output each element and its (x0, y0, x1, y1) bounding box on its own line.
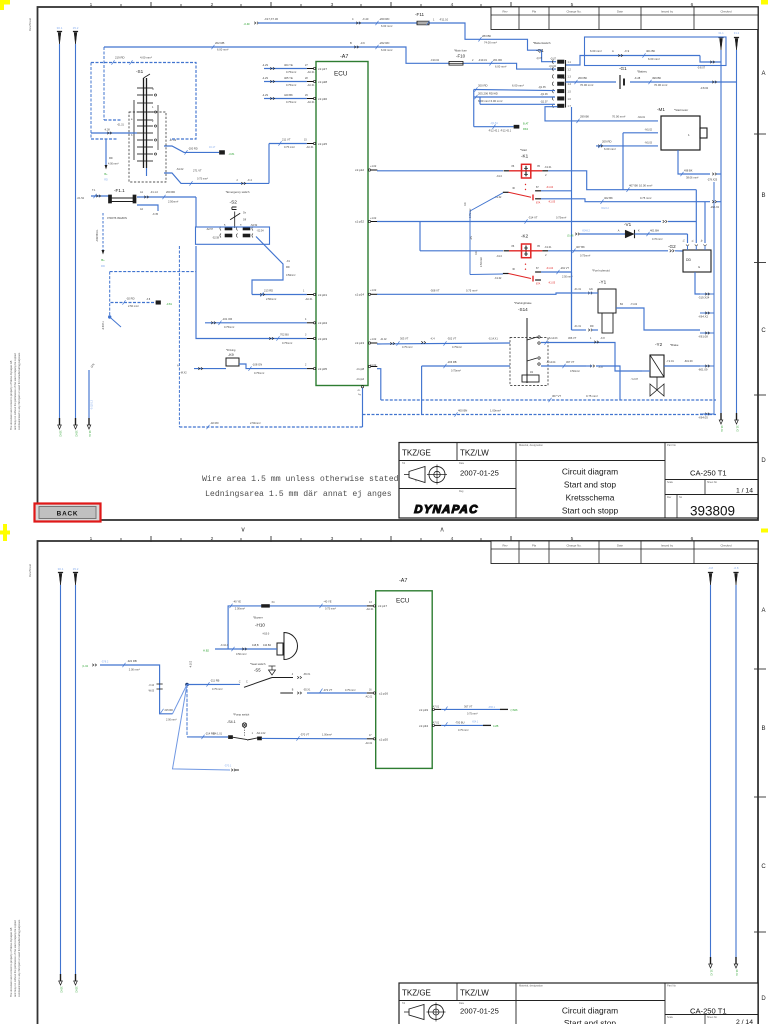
svg-text:-378.2: -378.2 (101, 659, 109, 663)
svg-text:-X.4: -X.4 (247, 178, 252, 182)
svg-text:TKZ/LW: TKZ/LW (460, 449, 489, 458)
svg-text:6.00 mm²: 6.00 mm² (381, 24, 392, 28)
svg-text:30 G: 30 G (60, 986, 64, 993)
svg-text:31.1: 31.1 (718, 31, 724, 35)
svg-text:-4.28: -4.28 (560, 76, 566, 80)
svg-text:-278.X25: -278.X25 (707, 179, 718, 182)
svg-text:-319.X24: -319.X24 (698, 295, 710, 299)
svg-text:-H10.0: -H10.0 (262, 633, 270, 636)
svg-text:-370.1: -370.1 (224, 763, 232, 767)
svg-text:-S2.54: -S2.54 (257, 230, 265, 233)
svg-text:-X64.X2: -X64.X2 (698, 314, 709, 318)
svg-text:2.00 mm²: 2.00 mm² (166, 719, 177, 722)
svg-text:404 YE: 404 YE (284, 63, 293, 67)
svg-text:-F10.31: -F10.31 (478, 58, 487, 62)
svg-text:-V1: -V1 (624, 222, 632, 227)
svg-text:TKZ/GE: TKZ/GE (402, 989, 431, 998)
svg-text:-S5: -S5 (254, 668, 261, 673)
svg-text:Date: Date (617, 543, 623, 547)
svg-text:B+: B+ (101, 258, 105, 262)
svg-text:-F11.10: -F11.10 (439, 18, 449, 22)
svg-text:2007-01-25: 2007-01-25 (460, 469, 499, 478)
svg-text:c1:p20: c1:p20 (379, 738, 388, 742)
svg-text:0.75 mm²: 0.75 mm² (402, 346, 413, 349)
svg-text:418,B: 418,B (252, 644, 259, 647)
svg-text:c1:p13: c1:p13 (355, 341, 364, 345)
svg-text:-A7: -A7 (340, 54, 348, 60)
svg-text:-X64.05: -X64.05 (698, 415, 708, 419)
svg-text:401 BK: 401 BK (646, 49, 655, 53)
svg-text:407 BK: 407 BK (576, 245, 585, 249)
svg-text:307 VT: 307 VT (552, 394, 561, 398)
svg-text:*Fuel solenoid: *Fuel solenoid (592, 269, 610, 273)
svg-text:1N: 1N (530, 371, 533, 374)
svg-text:0.75mm²: 0.75mm² (286, 100, 296, 104)
svg-text:The document and content is pr: The document and content is property of … (9, 360, 13, 430)
svg-text:RD: RD (104, 179, 108, 182)
svg-text:RK2: RK2 (523, 127, 529, 131)
svg-text:*Batteriswitch: *Batteriswitch (533, 41, 551, 45)
svg-text:*Driving: *Driving (226, 348, 236, 352)
svg-text:-291 VT: -291 VT (560, 267, 569, 270)
svg-text:B: B (350, 41, 352, 45)
svg-text:communicated to any third part: communicated to any third part or used f… (17, 352, 21, 430)
svg-text:6.00 mm²: 6.00 mm² (381, 48, 392, 52)
svg-text:283 BK: 283 BK (482, 34, 491, 38)
svg-text:GN: GN (589, 288, 593, 291)
svg-text:87A: 87A (536, 283, 541, 286)
svg-text:Part No: Part No (667, 984, 676, 988)
svg-text:400 BN: 400 BN (458, 409, 467, 413)
svg-text:c1:p04: c1:p04 (318, 321, 327, 325)
svg-text:30 G: 30 G (75, 986, 79, 993)
svg-text:*Brake: *Brake (670, 343, 679, 347)
svg-text:-X.9: -X.9 (624, 49, 630, 53)
svg-text:4.00 mm²: 4.00 mm² (108, 163, 119, 166)
svg-text:-AC.01: -AC.01 (305, 298, 313, 301)
svg-text:Checked: Checked (720, 9, 731, 13)
svg-text:420 BK: 420 BK (284, 93, 293, 97)
svg-text:2007-01-25: 2007-01-25 (460, 1007, 499, 1016)
svg-text:2.50mm²: 2.50mm² (168, 200, 178, 204)
svg-text:1: 1 (90, 536, 93, 542)
svg-text:Scale: Scale (667, 481, 674, 484)
svg-text:-0.81: -0.81 (229, 152, 235, 156)
svg-text:C: C (246, 681, 248, 684)
svg-text:1: 1 (90, 2, 93, 8)
svg-text:-K2: -K2 (521, 233, 529, 238)
svg-text:-Q1.06: -Q1.06 (540, 93, 548, 96)
svg-text:407 BK 10.00 mm²: 407 BK 10.00 mm² (629, 184, 652, 188)
svg-text:213 RD: 213 RD (264, 289, 273, 293)
svg-text:-H10: -H10 (255, 623, 265, 628)
svg-text:-K1: -K1 (521, 153, 529, 158)
svg-text:c1:p8: c1:p8 (357, 367, 365, 371)
svg-text:-0.8.07: -0.8.07 (697, 66, 706, 70)
svg-text:-K9: -K9 (228, 353, 234, 357)
svg-text:215 RD: 215 RD (165, 709, 174, 712)
svg-text:-161 OR: -161 OR (222, 317, 232, 321)
svg-text:-AC.01: -AC.01 (307, 84, 315, 87)
svg-text:-S.14.X1: -S.14.X1 (488, 338, 498, 341)
svg-text:-A7.01: -A7.01 (432, 722, 440, 725)
svg-text:306 VT: 306 VT (568, 336, 577, 340)
svg-text:CA-250 T1: CA-250 T1 (690, 1007, 727, 1016)
svg-text:0.75 mm²: 0.75 mm² (284, 145, 295, 149)
svg-text:Pla: Pla (532, 543, 536, 547)
svg-text:70.00 mm²: 70.00 mm² (654, 83, 667, 87)
svg-text:0.75 mm²: 0.75 mm² (458, 729, 469, 732)
svg-text:2.50 mm²: 2.50 mm² (480, 257, 483, 267)
svg-text:ECU: ECU (334, 71, 348, 78)
svg-text:-0.507.1: -0.507.1 (102, 321, 105, 330)
svg-text:RD: RD (590, 325, 594, 328)
svg-text:0.75mm²: 0.75mm² (452, 346, 462, 349)
svg-text:+1.02: +1.02 (370, 338, 377, 341)
svg-text:-AC.01: -AC.01 (365, 742, 373, 745)
svg-text:0.75mm²: 0.75mm² (580, 254, 590, 258)
svg-text:307 VT: 307 VT (566, 360, 575, 364)
svg-text:0.75 mm²: 0.75 mm² (640, 196, 651, 200)
svg-text:0.75mm²: 0.75mm² (282, 341, 292, 345)
svg-text:-G1: -G1 (619, 66, 627, 71)
svg-text:*Start: *Start (520, 148, 527, 152)
svg-text:-Y.2.07: -Y.2.07 (631, 378, 639, 381)
svg-text:299 BK: 299 BK (580, 115, 589, 119)
svg-text:-S14: -S14 (518, 307, 528, 312)
svg-text:∧: ∧ (439, 527, 444, 534)
svg-text:-K1.01: -K1.01 (544, 246, 552, 249)
svg-text:-0.4F: -0.4F (243, 22, 250, 26)
svg-text:DYNAPAC: DYNAPAC (414, 504, 479, 516)
svg-text:Tol: Tol (402, 462, 406, 465)
svg-text:c1:p03: c1:p03 (318, 337, 327, 341)
svg-text:-Q1.51: -Q1.51 (490, 122, 498, 125)
svg-text:RD: RD (475, 251, 478, 255)
svg-text:-700 BU: -700 BU (455, 720, 465, 724)
svg-text:Pla: Pla (532, 9, 536, 13)
svg-text:4.2B: 4.2B (493, 724, 499, 728)
svg-text:-Q.07: -Q.07 (536, 57, 543, 60)
svg-text:+1.02: +1.02 (370, 217, 377, 220)
svg-text:0.75mm²: 0.75mm² (286, 83, 296, 87)
svg-text:Circuit diagram: Circuit diagram (562, 1006, 618, 1016)
svg-text:0.75mm²: 0.75mm² (451, 370, 461, 373)
svg-text:Start and stop: Start and stop (564, 480, 616, 490)
svg-text:200 RD: 200 RD (478, 84, 487, 88)
svg-text:*Buzzer: *Buzzer (253, 615, 263, 619)
svg-text:TKZ/LW: TKZ/LW (460, 989, 489, 998)
svg-text:0.75 mm²: 0.75 mm² (467, 712, 478, 715)
svg-text:-S4.1.01: -S4.1.01 (213, 732, 223, 735)
svg-text:-F10: -F10 (456, 54, 466, 59)
svg-text:-S.14.04: -S.14.04 (546, 361, 556, 364)
svg-text:-Y1.02: -Y1.02 (630, 303, 638, 306)
svg-text:-G2: -G2 (668, 244, 676, 249)
svg-text:-K1.0: -K1.0 (496, 175, 502, 178)
svg-text:498 BK: 498 BK (684, 169, 693, 173)
svg-text:-X.10: -X.10 (149, 685, 155, 687)
svg-text:-S5.X1: -S5.X1 (303, 673, 311, 676)
svg-text:0.76 mm²: 0.76 mm² (652, 238, 663, 241)
svg-text:15.2: 15.2 (73, 567, 79, 571)
svg-text:-X.8: -X.8 (146, 299, 151, 301)
svg-text:3: 3 (331, 2, 334, 8)
svg-text:-Y2: -Y2 (655, 342, 663, 347)
svg-text:31.2: 31.2 (734, 31, 740, 35)
svg-text:c1:p32: c1:p32 (355, 220, 364, 224)
svg-text:c1:p19: c1:p19 (419, 708, 428, 712)
svg-text:-K1.0: -K1.0 (496, 255, 502, 258)
svg-text:-314 VT: -314 VT (528, 216, 538, 220)
svg-text:-40 YE: -40 YE (233, 600, 241, 604)
svg-text:Rev/Sheet: Rev/Sheet (28, 18, 32, 31)
svg-text:-S2.57: -S2.57 (206, 228, 214, 231)
svg-text:-K.38: -K.38 (104, 129, 110, 132)
svg-text:2.00 mm²: 2.00 mm² (129, 667, 140, 671)
svg-text:BACK: BACK (57, 511, 79, 518)
svg-text:70.00 mm²: 70.00 mm² (612, 115, 625, 119)
svg-text:-M1.03: -M1.03 (645, 142, 653, 145)
svg-text:c1:p12: c1:p12 (355, 168, 364, 172)
svg-text:*Pump switch: *Pump switch (233, 713, 250, 717)
svg-text:405 YE: 405 YE (284, 76, 293, 80)
svg-text:0.75 mm²: 0.75 mm² (466, 288, 477, 292)
svg-text:30 G: 30 G (75, 430, 79, 437)
svg-text:702 BU: 702 BU (280, 333, 289, 337)
svg-text:B+: B+ (104, 173, 108, 176)
svg-text:30 G: 30 G (59, 430, 63, 437)
svg-text:209 RD: 209 RD (602, 140, 611, 144)
svg-text:-206 RB: -206 RB (447, 360, 457, 364)
svg-text:Sheet No: Sheet No (707, 1016, 718, 1019)
svg-text:0.50mm²: 0.50mm² (286, 274, 296, 277)
svg-text:-S2.58: -S2.58 (212, 237, 220, 240)
svg-text:0.75mm²: 0.75mm² (556, 216, 566, 220)
svg-text:-Q1: -Q1 (536, 48, 544, 53)
svg-text:B: B (761, 726, 765, 732)
svg-text:3: 3 (331, 536, 334, 542)
svg-text:-S2: -S2 (230, 200, 238, 206)
svg-text:-S1.02: -S1.02 (176, 168, 184, 171)
svg-text:-200 RD: -200 RD (188, 147, 198, 151)
svg-text:*Parkingbrake: *Parkingbrake (514, 301, 532, 305)
svg-text:-41.02: -41.02 (380, 339, 387, 341)
svg-text:-X.8: -X.8 (600, 337, 605, 340)
svg-text:0.75 mm²: 0.75 mm² (345, 689, 356, 692)
svg-text:-A7.01: -A7.01 (432, 706, 440, 709)
svg-text:6.00 mm²: 6.00 mm² (604, 147, 616, 151)
svg-text:-M1: -M1 (657, 107, 665, 112)
svg-text:CA-250 T1: CA-250 T1 (690, 469, 727, 478)
svg-text:X048.2: X048.2 (582, 230, 591, 233)
svg-text:-AC.01: -AC.01 (365, 696, 373, 699)
svg-text:200 RD: 200 RD (166, 190, 175, 194)
svg-text:0.75 mm²: 0.75 mm² (586, 394, 598, 398)
svg-text:Rev/Sheet: Rev/Sheet (28, 564, 32, 577)
svg-text:+1.02: +1.02 (370, 165, 377, 168)
svg-text:6.00 mm²: 6.00 mm² (590, 49, 602, 53)
svg-text:-S.14.03: -S.14.03 (548, 337, 558, 340)
svg-text:c1:p30: c1:p30 (318, 97, 327, 101)
svg-text:RD: RD (109, 157, 113, 160)
svg-text:*Startmotor: *Startmotor (674, 108, 688, 112)
svg-text:1.00mm²: 1.00mm² (490, 409, 501, 413)
svg-text:-X.40: -X.40 (362, 17, 369, 21)
svg-text:-K1.05: -K1.05 (548, 282, 556, 285)
svg-text:-0.8: -0.8 (734, 566, 739, 570)
svg-text:31 G: 31 G (720, 425, 724, 432)
svg-text:30.1: 30.1 (58, 567, 64, 571)
svg-text:Kretsschema: Kretsschema (566, 493, 615, 503)
svg-text:-308 VT: -308 VT (430, 288, 440, 292)
svg-text:X04.1: X04.1 (472, 720, 479, 723)
svg-text:B: B (761, 193, 765, 199)
svg-text:-K1.04: -K1.04 (546, 267, 554, 270)
svg-text:-02 RD: -02 RD (210, 421, 219, 425)
svg-text:-302 VT: -302 VT (447, 337, 457, 341)
svg-text:Reg: Reg (459, 490, 464, 493)
svg-text:-601.09: -601.09 (698, 367, 708, 371)
svg-text:c1:p15: c1:p15 (318, 142, 327, 146)
svg-text:87A: 87A (536, 201, 541, 204)
svg-text:-40 YE: -40 YE (323, 600, 331, 604)
svg-text:2.00mm²: 2.00mm² (235, 607, 245, 611)
svg-text:-26A.X2: -26A.X2 (710, 206, 720, 209)
svg-text:*Emergency switch: *Emergency switch (226, 190, 250, 194)
svg-text:0.75 mm²: 0.75 mm² (325, 607, 336, 611)
svg-text:-X.4: -X.4 (430, 338, 435, 341)
svg-text:2.50mm²: 2.50mm² (266, 297, 276, 301)
svg-text:-F1.52: -F1.52 (77, 197, 85, 200)
svg-text:-Q1.07: -Q1.07 (540, 100, 548, 103)
svg-text:D: D (761, 996, 766, 1002)
svg-text:6.00 mm² 6.00 mm²: 6.00 mm² 6.00 mm² (478, 99, 502, 103)
svg-text:070/076 09A/DIN: 070/076 09A/DIN (107, 216, 127, 220)
svg-text:2: 2 (211, 536, 214, 542)
svg-text:Date: Date (459, 1002, 465, 1005)
svg-text:-0.8.02: -0.8.02 (700, 86, 709, 90)
svg-text:30.1: 30.1 (57, 26, 63, 30)
svg-text:6.00 mm²: 6.00 mm² (512, 84, 524, 88)
svg-text:ECU: ECU (396, 598, 410, 605)
svg-text:-Q1.35: -Q1.35 (538, 86, 546, 89)
svg-text:-F1.1: -F1.1 (114, 188, 125, 193)
svg-text:-S4.1: -S4.1 (227, 720, 236, 724)
svg-text:Issued by: Issued by (661, 9, 674, 13)
svg-text:1 / 14: 1 / 14 (736, 488, 753, 495)
svg-text:-AC.01: -AC.01 (366, 608, 374, 611)
svg-text:C: C (761, 864, 766, 870)
svg-text:DD: DD (686, 258, 691, 262)
svg-text:0.75mm²: 0.75mm² (254, 371, 264, 375)
svg-text:410.B4: 410.B4 (263, 644, 272, 647)
svg-text:-K1.05: -K1.05 (548, 200, 556, 203)
svg-text:-P.12.42.1 -P.12.42.1: -P.12.42.1 -P.12.42.1 (488, 130, 512, 133)
svg-text:4: 4 (451, 2, 454, 8)
svg-text:-F1.31: -F1.31 (574, 325, 582, 328)
svg-text:393809: 393809 (690, 504, 735, 519)
svg-text:-370 VT: -370 VT (300, 732, 310, 736)
svg-text:-Y.2.01: -Y.2.01 (666, 360, 674, 363)
svg-text:6.00 mm²: 6.00 mm² (495, 65, 506, 69)
svg-text:219 RD: 219 RD (115, 56, 124, 60)
svg-text:201 RD: 201 RD (493, 58, 502, 62)
svg-text:-372 VT: -372 VT (323, 688, 333, 692)
svg-text:∨: ∨ (240, 527, 245, 534)
svg-text:-AC.01: -AC.01 (307, 71, 315, 74)
svg-text:Start och stopp: Start och stopp (562, 506, 619, 516)
svg-text:-400/450.11: -400/450.11 (96, 229, 99, 242)
svg-text:(1.02: (1.02 (82, 665, 88, 668)
svg-text:c1:p28: c1:p28 (318, 80, 327, 84)
svg-text:-F1.31: -F1.31 (574, 288, 582, 291)
svg-text:-M1.01: -M1.01 (638, 116, 646, 119)
svg-text:D: D (761, 458, 766, 464)
svg-text:-K1.01: -K1.01 (544, 166, 552, 169)
svg-text:Sheet No: Sheet No (707, 481, 718, 484)
svg-text:367 VT: 367 VT (464, 705, 473, 709)
svg-text:and may not without the permis: and may not without the permission of th… (13, 920, 17, 997)
svg-text:-0.81: -0.81 (166, 302, 172, 306)
svg-text:-X17,X7.30: -X17,X7.30 (264, 17, 278, 21)
svg-text:c1:p16: c1:p16 (379, 692, 388, 696)
svg-text:Rev: Rev (503, 543, 509, 547)
svg-text:RD: RD (464, 202, 467, 206)
svg-text:Scale: Scale (667, 1016, 674, 1019)
svg-text:-S4.1.02: -S4.1.02 (256, 732, 266, 735)
svg-text:-P06.1: -P06.1 (488, 706, 496, 709)
svg-text:-M.X2: -M.X2 (180, 372, 187, 375)
svg-text:C: C (239, 681, 241, 684)
svg-text:-200 RD: -200 RD (379, 17, 389, 21)
svg-text:G: G (698, 265, 700, 269)
svg-text:RD: RD (101, 264, 105, 268)
svg-text:16.17: 16.17 (209, 146, 216, 149)
svg-text:-AC.01: -AC.01 (307, 101, 315, 104)
svg-text:2.50mm²: 2.50mm² (250, 421, 261, 425)
svg-text:41.02: 41.02 (370, 364, 377, 367)
svg-text:2 / 14: 2 / 14 (736, 1019, 753, 1024)
svg-text:*Main fuse: *Main fuse (454, 48, 467, 52)
svg-text:31 G: 31 G (710, 969, 714, 976)
svg-text:-0.Q01.2: -0.Q01.2 (90, 399, 94, 410)
svg-text:-4.29: -4.29 (262, 63, 268, 67)
svg-text:-F11: -F11 (415, 12, 425, 17)
svg-text:-M1.02: -M1.02 (645, 129, 653, 132)
svg-text:-X61.08: -X61.08 (698, 334, 708, 338)
svg-text:-01.31: -01.31 (117, 124, 124, 127)
svg-text:(5.A6: (5.A6 (567, 234, 574, 238)
svg-text:31 G: 31 G (736, 425, 740, 432)
svg-text:-108 GN: -108 GN (252, 363, 262, 367)
svg-text:31 G: 31 G (735, 969, 739, 976)
svg-text:The document and content is pr: The document and content is property of … (9, 927, 13, 997)
svg-text:-F1.1:2: -F1.1:2 (150, 191, 159, 194)
svg-text:-AC.01: -AC.01 (306, 146, 314, 149)
svg-text:-K.28: -K.28 (634, 76, 641, 80)
svg-text:499 BK: 499 BK (652, 76, 661, 80)
svg-text:Rev: Rev (503, 9, 509, 13)
svg-text:C: C (761, 328, 766, 334)
svg-text:0.50 mm²: 0.50 mm² (236, 653, 247, 656)
svg-text:38.06 mm²: 38.06 mm² (686, 176, 699, 180)
svg-text:Material, designation: Material, designation (519, 443, 543, 447)
svg-text:0.50mm²: 0.50mm² (570, 370, 580, 373)
svg-text:0.75mm²: 0.75mm² (224, 325, 234, 329)
svg-text:271 VT: 271 VT (193, 169, 202, 173)
svg-text:c1:p01: c1:p01 (318, 293, 327, 297)
